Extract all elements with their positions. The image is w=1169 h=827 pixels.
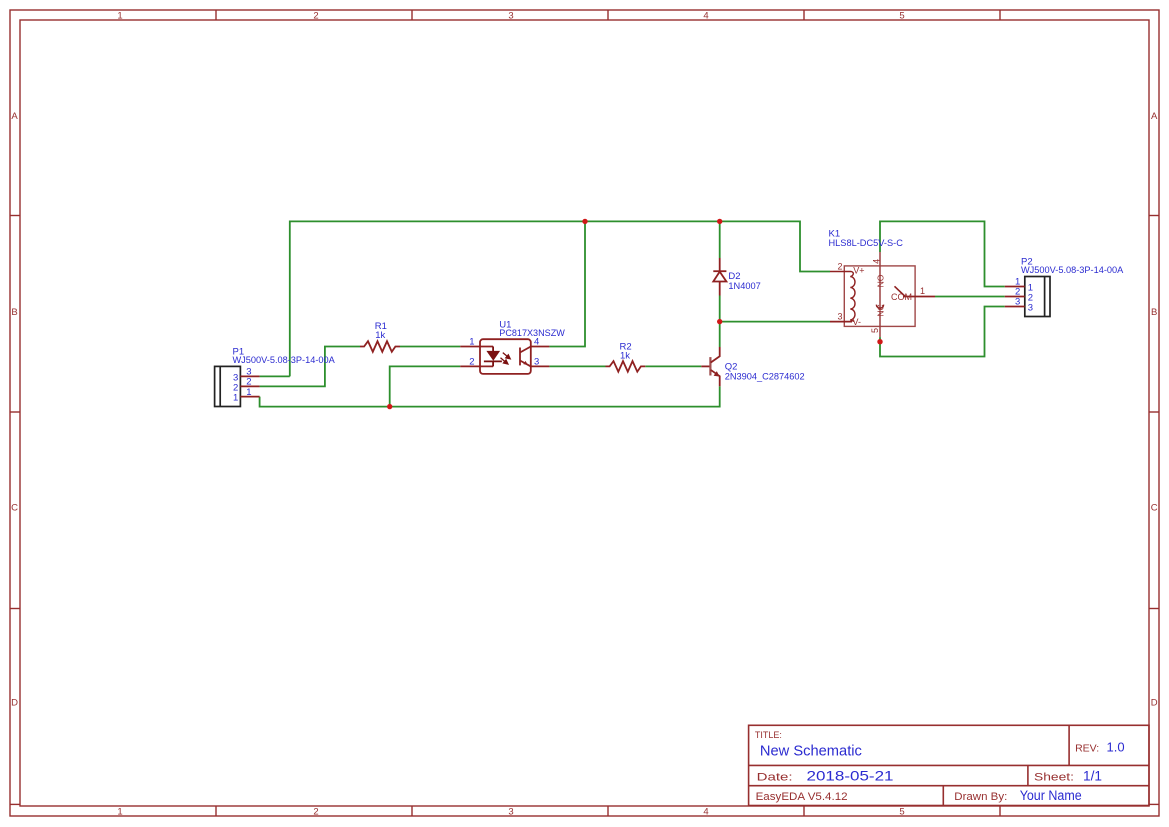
svg-text:1k: 1k <box>620 351 630 362</box>
svg-text:A: A <box>1151 111 1158 122</box>
svg-text:2018-05-21: 2018-05-21 <box>807 768 894 784</box>
svg-text:NO: NO <box>876 274 886 287</box>
P2 pins <box>1005 287 1025 307</box>
svg-text:C: C <box>11 503 18 514</box>
P1 pin names <box>233 372 238 403</box>
svg-text:1: 1 <box>469 337 474 348</box>
K1 pin4 NO <box>879 252 881 310</box>
svg-text:TITLE:: TITLE: <box>755 730 782 740</box>
svg-text:5: 5 <box>899 10 904 21</box>
svg-text:3: 3 <box>534 357 539 368</box>
K1 NC contact cup <box>876 305 883 309</box>
svg-text:2: 2 <box>469 357 474 368</box>
svg-text:1k: 1k <box>375 330 385 341</box>
svg-text:3: 3 <box>508 806 513 817</box>
U1 pins <box>460 347 549 367</box>
svg-text:1.0: 1.0 <box>1107 740 1125 755</box>
svg-text:PC817X3NSZW: PC817X3NSZW <box>499 328 565 339</box>
U1 body box <box>480 339 531 374</box>
svg-text:B: B <box>1151 307 1157 318</box>
svg-text:WJ500V-5.08-3P-14-00A: WJ500V-5.08-3P-14-00A <box>233 355 336 366</box>
svg-text:A: A <box>11 111 18 122</box>
junction top U1 riser <box>582 219 587 224</box>
K1 pin numbers <box>837 259 925 333</box>
junction K1 pin5 <box>877 339 882 344</box>
wire K1 COM to P2 pin2 <box>935 296 1005 298</box>
wire U1 pin2 down to bottom net <box>390 366 461 406</box>
junction dots <box>387 219 883 410</box>
title block <box>749 725 1149 805</box>
wire U1 pin4 riser to top net <box>549 221 585 346</box>
P1 body <box>215 366 241 406</box>
Q2 collector <box>711 347 720 363</box>
svg-text:3: 3 <box>837 311 842 321</box>
svg-text:WJ500V-5.08-3P-14-00A: WJ500V-5.08-3P-14-00A <box>1021 265 1124 276</box>
P1 pins <box>240 376 259 396</box>
K1 pin5 NC <box>879 310 881 337</box>
svg-text:4: 4 <box>534 337 539 348</box>
svg-text:Drawn By:: Drawn By: <box>954 791 1007 803</box>
wire R2 to Q2 base <box>645 365 701 367</box>
svg-text:3: 3 <box>1015 297 1020 308</box>
svg-text:EasyEDA V5.4.12: EasyEDA V5.4.12 <box>756 791 848 803</box>
svg-text:HLS8L-DC5V-S-C: HLS8L-DC5V-S-C <box>829 238 904 249</box>
Q2 base bar <box>709 357 711 375</box>
P2 body <box>1025 277 1050 317</box>
wire P1 pin3 to riser <box>260 375 290 377</box>
svg-text:3: 3 <box>508 10 513 21</box>
svg-text:1N4007: 1N4007 <box>728 281 760 292</box>
U1 LED <box>484 347 502 367</box>
svg-text:D: D <box>1151 698 1158 709</box>
wire R1 to U1 pin1 <box>400 346 460 348</box>
svg-text:Your Name: Your Name <box>1020 788 1082 803</box>
resistor R2 <box>606 342 646 372</box>
wire bottom net <box>260 386 720 406</box>
wire junction to K1 pin3 <box>720 321 830 323</box>
junction D2 bottom <box>717 319 722 324</box>
svg-text:D: D <box>11 698 18 709</box>
svg-text:B: B <box>11 307 17 318</box>
wire top net horizontal <box>290 221 830 376</box>
connector P1 <box>215 346 336 406</box>
svg-text:1: 1 <box>920 286 925 296</box>
U1 light arrows <box>501 353 511 364</box>
Q2 emitter <box>711 370 720 386</box>
junction bottom U1 pin2 <box>387 404 392 409</box>
svg-text:5: 5 <box>870 328 880 333</box>
U1 pin numbers <box>469 337 539 368</box>
svg-text:Sheet:: Sheet: <box>1034 772 1074 784</box>
svg-text:2: 2 <box>837 261 842 271</box>
svg-text:3: 3 <box>1028 302 1033 313</box>
relay K1 <box>829 229 936 338</box>
svg-text:1: 1 <box>117 806 122 817</box>
K1 pin1 COM <box>903 296 935 298</box>
svg-text:1/1: 1/1 <box>1083 768 1102 784</box>
K1 internal labels <box>853 266 913 327</box>
wires <box>260 221 1005 406</box>
svg-text:2: 2 <box>313 806 318 817</box>
svg-text:1: 1 <box>233 393 238 404</box>
svg-text:V+: V+ <box>853 266 864 276</box>
Q2 base stub <box>701 365 709 367</box>
K1 switch blade <box>895 286 906 296</box>
svg-text:Date:: Date: <box>757 772 793 784</box>
svg-text:5: 5 <box>899 806 904 817</box>
K1 coil <box>830 272 855 322</box>
wire K1 pin4 riser to P2 pin1 <box>880 221 1005 286</box>
P2 pin names <box>1028 282 1033 313</box>
wire D2 top <box>719 221 721 258</box>
resistor R1 <box>360 321 400 352</box>
wire D2 bottom to K1 pin3 net <box>719 296 721 348</box>
P1 pin numbers <box>246 367 251 398</box>
wire U1 pin3 to R2 <box>549 365 605 367</box>
svg-text:4: 4 <box>703 806 708 817</box>
diode D2 <box>713 258 761 296</box>
svg-text:New Schematic: New Schematic <box>760 744 862 760</box>
svg-text:4: 4 <box>872 259 882 264</box>
wire P1 pin2 to R1 <box>260 347 360 387</box>
U1 phototransistor <box>520 347 531 367</box>
svg-text:COM: COM <box>891 292 912 302</box>
svg-text:2N3904_C2874602: 2N3904_C2874602 <box>725 371 805 382</box>
svg-text:4: 4 <box>703 10 708 21</box>
Q2 emitter arrow <box>714 371 720 377</box>
svg-text:NC: NC <box>876 304 886 316</box>
transistor Q2 <box>701 347 804 386</box>
svg-text:2: 2 <box>313 10 318 21</box>
svg-text:1: 1 <box>117 10 122 21</box>
svg-text:REV:: REV: <box>1075 742 1099 754</box>
K1 body box <box>844 266 915 327</box>
connector P2 <box>1005 256 1124 316</box>
junction top D2 <box>717 219 722 224</box>
svg-text:V-: V- <box>853 317 862 327</box>
optocoupler U1 <box>460 319 565 374</box>
wire K1 pin5 to P2 pin3 <box>880 307 1005 357</box>
svg-text:1: 1 <box>246 387 251 398</box>
svg-text:C: C <box>1151 503 1158 514</box>
P2 pin numbers <box>1015 277 1020 308</box>
